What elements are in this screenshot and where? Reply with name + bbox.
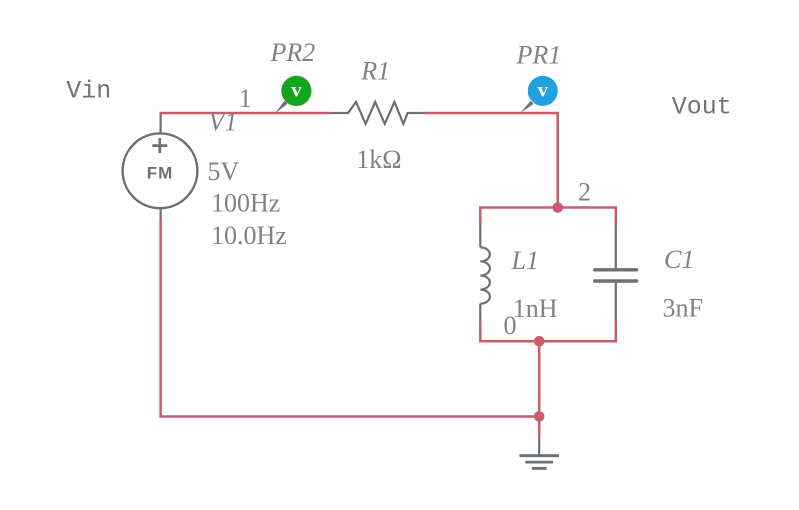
svg-text:Vin: Vin: [66, 77, 111, 106]
svg-text:100Hz: 100Hz: [211, 188, 280, 217]
svg-text:L1: L1: [511, 246, 539, 275]
svg-text:V1: V1: [209, 108, 238, 137]
svg-text:Vout: Vout: [672, 93, 732, 122]
svg-text:3nF: 3nF: [663, 294, 703, 323]
svg-text:C1: C1: [664, 245, 694, 274]
svg-text:v: v: [291, 78, 302, 102]
svg-text:PR1: PR1: [516, 40, 562, 69]
svg-text:5V: 5V: [208, 157, 240, 186]
svg-text:v: v: [538, 78, 549, 102]
svg-text:PR2: PR2: [270, 38, 316, 67]
svg-text:R1: R1: [360, 57, 390, 86]
svg-text:2: 2: [578, 178, 591, 207]
svg-text:1nH: 1nH: [513, 294, 558, 323]
svg-text:10.0Hz: 10.0Hz: [211, 221, 287, 250]
svg-text:1: 1: [239, 84, 252, 113]
svg-text:FM: FM: [147, 164, 174, 183]
svg-text:1kΩ: 1kΩ: [356, 145, 401, 174]
